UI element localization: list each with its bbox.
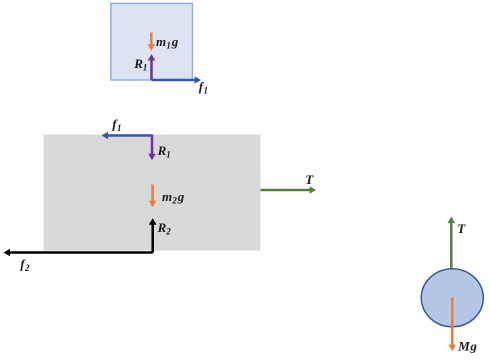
ball M (circle) [421, 269, 483, 327]
arrow m2g (orange, down, rectangle middle) [149, 185, 157, 208]
arrow R1 (purple, down, from rectangle top) [148, 135, 156, 161]
arrow Mg (orange, down, from circle center) [449, 298, 457, 352]
arrow T (green, up, from circle top) [448, 217, 456, 269]
block m1 (small square) [111, 3, 192, 80]
arrow m1g (orange, down, inside square) [148, 33, 156, 51]
svg-text:T: T [457, 221, 466, 236]
arrow f1 (blue, left, along rectangle top) [102, 132, 152, 140]
svg-text:Mg: Mg [457, 339, 477, 354]
arrow T (green, right, from rectangle right side) [261, 186, 317, 194]
arrow R2 (black, up, from rectangle bottom) [149, 218, 157, 252]
svg-text:T: T [305, 172, 314, 187]
block m2 (large gray rectangle) [44, 135, 261, 251]
arrow f1 (blue, right, along square bottom) [152, 76, 202, 84]
arrow f2 (black, left, along floor line) [4, 249, 153, 257]
arrow R1 (purple, up, inside square) [148, 54, 156, 80]
